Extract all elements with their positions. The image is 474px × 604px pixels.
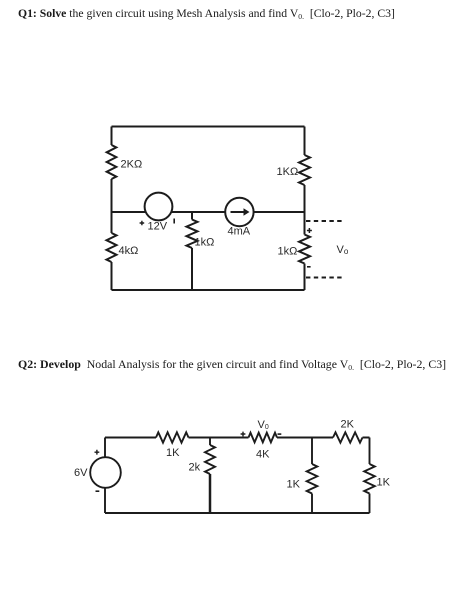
svg-text:1K: 1K: [287, 479, 301, 491]
svg-text:1K: 1K: [166, 447, 180, 459]
svg-text:4kΩ: 4kΩ: [119, 245, 139, 257]
svg-text:1kΩ: 1kΩ: [278, 246, 298, 258]
svg-text:V0: V0: [258, 419, 269, 431]
svg-text:1K: 1K: [377, 477, 391, 489]
svg-text:4K: 4K: [256, 449, 270, 461]
svg-text:2KΩ: 2KΩ: [121, 159, 143, 171]
svg-text:2k: 2k: [189, 462, 201, 474]
svg-text:6V: 6V: [74, 467, 88, 479]
svg-text:Vo: Vo: [337, 244, 349, 256]
svg-text:12V: 12V: [148, 221, 168, 233]
svg-text:4mA: 4mA: [228, 226, 251, 238]
svg-text:1KΩ: 1KΩ: [277, 166, 299, 178]
svg-text:1kΩ: 1kΩ: [195, 237, 215, 249]
svg-text:2K: 2K: [341, 419, 355, 431]
